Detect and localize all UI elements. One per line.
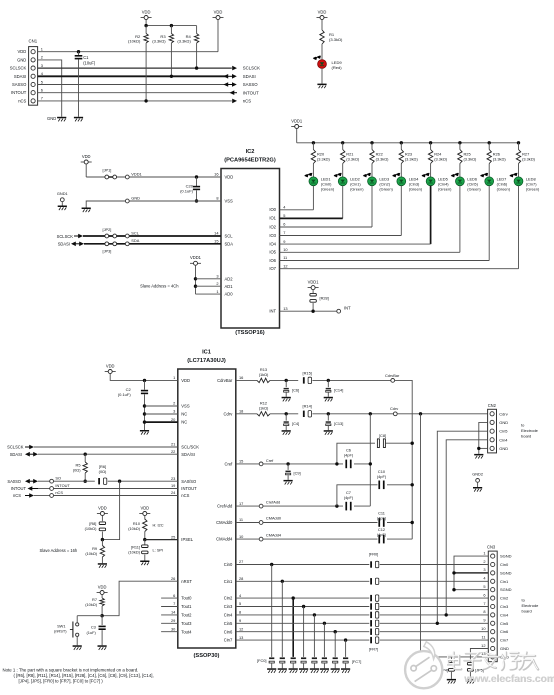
jumper JP3	[103, 242, 117, 254]
ground for C13	[324, 430, 333, 432]
ground for CN2	[474, 454, 483, 456]
svg-text:16: 16	[239, 375, 243, 380]
svg-text:IO1: IO1	[269, 216, 276, 221]
svg-text:SASSO: SASSO	[12, 82, 27, 87]
resistor R26 (3.3k)	[487, 143, 506, 177]
capacitor C1 (10uF)	[75, 50, 96, 117]
svg-text:2: 2	[173, 401, 175, 406]
svg-text:(1kΩ): (1kΩ)	[259, 372, 269, 377]
junction Cin5 vertical to row	[436, 622, 439, 625]
wire R13 to R15	[270, 379, 298, 382]
resistor R23 (3.3k)	[399, 143, 418, 177]
svg-text:(3.3kΩ): (3.3kΩ)	[152, 39, 166, 44]
svg-text:[FC7]: [FC7]	[352, 659, 362, 664]
ground for SW1	[73, 645, 82, 647]
svg-text:6: 6	[283, 222, 285, 227]
svg-text:6: 6	[173, 593, 175, 598]
CN1 pin numbers	[41, 47, 44, 101]
wire CrefAdd from pin17	[236, 505, 259, 507]
capacitor C3 (1uF)	[87, 616, 106, 646]
wire VDD1 LED rail	[297, 141, 521, 144]
svg-text:(3.3kΩ): (3.3kΩ)	[177, 39, 191, 44]
capacitor FC7 not implemented	[343, 657, 348, 668]
power VDD symbol (R7)	[97, 584, 108, 598]
ground for LED9	[317, 84, 326, 86]
node Cref	[259, 458, 274, 466]
arrow SA0SO bidirectional	[7, 479, 38, 484]
jumper JP1	[103, 168, 117, 179]
wire CrefAdd to C7	[263, 504, 343, 507]
svg-text:NC: NC	[181, 412, 187, 417]
wire NC pin20	[143, 420, 178, 423]
node INTOUT label	[50, 483, 71, 491]
svg-text:(4pF): (4pF)	[377, 515, 387, 520]
svg-text:SGND: SGND	[500, 554, 512, 559]
svg-text:GND1: GND1	[57, 191, 68, 196]
svg-text:VDD: VDD	[181, 378, 190, 383]
svg-text:H: I2C: H: I2C	[153, 523, 164, 528]
LED8 (Cin7) green	[509, 173, 540, 192]
wire Cin7 row	[236, 638, 488, 641]
jumper JP5 not implemented	[467, 662, 483, 679]
svg-text:[C13]: [C13]	[334, 421, 343, 426]
svg-text:Cin7: Cin7	[224, 638, 233, 643]
svg-text:Cin0: Cin0	[500, 562, 509, 567]
ground for FC6	[331, 668, 340, 670]
ground for C4	[282, 430, 291, 432]
capacitor FC1 not implemented	[280, 657, 285, 668]
svg-text:(3.3kΩ): (3.3kΩ)	[376, 156, 390, 161]
label to electrode board (CN3)	[522, 598, 540, 614]
svg-text:5: 5	[483, 584, 485, 589]
svg-text:[FC0]: [FC0]	[257, 658, 267, 663]
wire Cin1 tap to FC1	[281, 581, 283, 657]
capacitor FC2 not implemented	[291, 657, 296, 668]
svg-text:29: 29	[171, 618, 175, 623]
LED2 (Cin1) green	[334, 173, 365, 192]
svg-text:(3.3kΩ): (3.3kΩ)	[434, 156, 448, 161]
svg-text:VDD1: VDD1	[291, 118, 303, 123]
svg-text:(1uF): (1uF)	[87, 630, 97, 635]
power VDD symbol (IC2 VDD)	[81, 154, 92, 177]
svg-text:Cin5: Cin5	[499, 429, 508, 434]
svg-text:SDASI: SDASI	[14, 74, 26, 79]
arrow INTOUT out of IC1	[11, 486, 38, 491]
svg-text:CrefAdd: CrefAdd	[217, 504, 233, 509]
IC2 left pin labels	[225, 175, 234, 297]
svg-text:12: 12	[283, 263, 287, 268]
wire AD2	[194, 277, 221, 280]
wire SO to R6	[54, 480, 95, 482]
jumper JP4 not implemented	[439, 657, 454, 679]
wire CMAdd4 from pin10	[236, 538, 259, 540]
wire nRST to pin26	[102, 581, 178, 616]
capacitor FC5 not implemented	[322, 657, 327, 668]
svg-text:AD1: AD1	[225, 284, 234, 289]
resistor R28 not implemented	[308, 279, 329, 313]
svg-text:13: 13	[481, 651, 485, 656]
svg-text:(10kΩ): (10kΩ)	[128, 526, 140, 531]
ground for C3	[98, 645, 107, 647]
svg-text:5: 5	[41, 79, 43, 84]
svg-text:Cin0: Cin0	[224, 562, 233, 567]
svg-text:Cref: Cref	[224, 462, 233, 467]
wire nCS to pin24	[54, 495, 178, 497]
arrow SCLSCK into IC1	[7, 445, 34, 450]
svg-text:(Green): (Green)	[497, 187, 511, 192]
svg-text:VDD: VDD	[140, 505, 149, 510]
GND symbol CN1 pin2	[47, 116, 66, 122]
capacitor FC6 not implemented	[333, 657, 338, 668]
svg-text:IO6: IO6	[269, 258, 276, 263]
wire Cdrv from pin18	[236, 413, 257, 415]
wire CdrvBar from pin16	[236, 379, 257, 381]
svg-text:Cin4: Cin4	[500, 612, 509, 617]
IC2 left pin numbers	[214, 172, 219, 294]
wire SCLSCK pin3	[38, 67, 232, 69]
wire Cin0 tap to FC0	[271, 565, 273, 657]
svg-text:CN1: CN1	[29, 39, 38, 44]
wire Cin4 row	[236, 613, 488, 616]
LED4 (Cin3) green	[392, 173, 423, 192]
svg-text:Cin4: Cin4	[499, 437, 508, 442]
wire Cdrv to CN2	[397, 412, 487, 415]
wire Cdrv shield to CN3 pin13	[421, 414, 489, 657]
node SDA label	[125, 238, 139, 246]
svg-text:IO7: IO7	[269, 266, 276, 271]
arrow nCS into IC1	[13, 493, 34, 498]
ground for FC0	[267, 668, 276, 670]
resistor R7 (10k)	[85, 597, 104, 618]
svg-text:[C8]: [C8]	[379, 433, 386, 438]
LED7 (Cin6) green	[480, 173, 511, 192]
svg-text:VSS: VSS	[225, 199, 234, 204]
svg-text:IO5: IO5	[269, 250, 276, 255]
capacitor FC4 not implemented	[312, 657, 317, 668]
wire Cin0 row	[236, 563, 488, 566]
wire SGND bus CN3	[452, 556, 488, 591]
ground for C9	[284, 480, 293, 482]
resistor R25 (3.3k)	[458, 143, 477, 177]
wire GND pin2	[38, 60, 62, 117]
wire SCL	[83, 235, 221, 237]
svg-text:Tout3: Tout3	[181, 621, 192, 626]
svg-text:6: 6	[41, 88, 43, 93]
node CdrvBar	[385, 373, 400, 382]
wire Cin3 tap to FC3	[303, 607, 305, 657]
svg-text:board: board	[521, 433, 531, 438]
svg-text:Slave Address = 16h: Slave Address = 16h	[40, 548, 78, 553]
node CrefAdd	[259, 499, 280, 508]
svg-text:SCL: SCL	[131, 230, 139, 235]
svg-text:CMAdd0: CMAdd0	[266, 516, 282, 521]
svg-text:VSS: VSS	[181, 404, 190, 409]
note 1 text	[3, 668, 154, 684]
svg-text:INTOUT: INTOUT	[11, 90, 27, 95]
svg-text:SO: SO	[55, 476, 61, 481]
svg-text:21: 21	[171, 442, 175, 447]
svg-text:INT: INT	[344, 306, 351, 311]
svg-text:SCLSCK: SCLSCK	[57, 234, 74, 239]
svg-text:Electrode: Electrode	[521, 428, 539, 433]
wire NC pin3	[143, 412, 178, 415]
power VDD1 symbol (LED rail)	[291, 118, 303, 143]
svg-text:CrefAdd: CrefAdd	[266, 499, 280, 504]
svg-text:Tout4: Tout4	[181, 629, 192, 634]
resistor R24 (3.3k)	[428, 143, 447, 177]
CN3 pin numbers	[481, 550, 486, 656]
svg-text:8: 8	[239, 610, 241, 615]
svg-text:nCS: nCS	[13, 493, 21, 498]
resistor R3 (3.3k)	[152, 26, 173, 78]
svg-text:8: 8	[483, 609, 485, 614]
svg-text:INTOUT: INTOUT	[55, 483, 70, 488]
LED6 (Cin5) green	[451, 173, 482, 192]
svg-text:(Green): (Green)	[321, 187, 335, 192]
svg-text:2: 2	[41, 55, 43, 60]
IC2 right pin numbers	[283, 205, 288, 311]
svg-text:GND: GND	[47, 116, 56, 121]
svg-text:GND: GND	[131, 195, 140, 200]
svg-text:SASSO: SASSO	[243, 82, 258, 87]
svg-text:(10kΩ): (10kΩ)	[128, 550, 140, 555]
svg-text:(4pF): (4pF)	[344, 495, 354, 500]
svg-text:12: 12	[239, 626, 243, 631]
svg-text:IO3: IO3	[269, 233, 276, 238]
ground for IC2 VSS	[82, 208, 91, 210]
capacitor C8 not implemented	[337, 433, 414, 464]
LED3 (Cin2) green	[363, 173, 394, 192]
wire Cdrv vertical to C6 C7	[369, 414, 371, 506]
svg-text:Cin4: Cin4	[224, 613, 233, 618]
ground for JP5	[466, 679, 475, 681]
svg-text:27: 27	[239, 559, 243, 564]
svg-text:26: 26	[171, 576, 175, 581]
svg-text:5: 5	[283, 213, 285, 218]
svg-text:Tout0: Tout0	[181, 596, 192, 601]
svg-text:(0.1uF): (0.1uF)	[118, 392, 132, 397]
ground for FC1	[278, 668, 287, 670]
ground for FC4	[310, 668, 319, 670]
capacitor C6 (4pF)	[344, 447, 372, 468]
svg-text:nCS: nCS	[243, 99, 251, 104]
wire VDD pin1	[38, 51, 218, 53]
resistor R5 (0 ohm)	[73, 453, 88, 483]
node nCS label	[50, 490, 64, 498]
svg-text:SDASI: SDASI	[10, 452, 22, 457]
resistor R13 (1k)	[257, 367, 270, 383]
node SO label	[50, 476, 61, 484]
svg-text:IO2: IO2	[269, 224, 276, 229]
wire AD1	[194, 285, 221, 288]
arrow nCS out	[232, 99, 251, 104]
svg-text:6: 6	[483, 592, 485, 597]
switch SW1 (nRST)	[54, 616, 102, 646]
svg-text:CdrvBar: CdrvBar	[217, 378, 233, 383]
node CMAdd4	[259, 532, 282, 541]
svg-text:( [R6], [R8], [R11], [R14], [R: ( [R6], [R8], [R11], [R14], [R15], [R28]…	[14, 673, 154, 678]
op IC2 PCA9654EDTR2G body	[221, 169, 280, 329]
svg-text:VDD1: VDD1	[190, 255, 202, 260]
svg-text:SDASI: SDASI	[58, 242, 70, 247]
svg-text:SGND: SGND	[500, 587, 512, 592]
wire Cref to C6	[263, 462, 343, 465]
node VDD1 on IC2 VDD wire	[125, 171, 141, 179]
svg-text:[R15]: [R15]	[303, 370, 312, 375]
svg-text:5: 5	[239, 601, 241, 606]
op IC1 LC717A30UJ body	[178, 369, 236, 648]
svg-text:C1: C1	[83, 55, 89, 60]
svg-text:(Green): (Green)	[467, 187, 481, 192]
resistor FR0 not implemented	[370, 561, 379, 567]
capacitor C20 (0.1uF)	[180, 175, 200, 202]
wire Cref from pin15	[236, 463, 259, 465]
connector CN3	[487, 544, 497, 661]
label to electrode board (CN2)	[521, 422, 539, 438]
wire Cin4 from CN2	[446, 440, 487, 615]
wire INT from IC2 pin13	[280, 310, 337, 312]
resistor FR4 not implemented	[370, 612, 379, 618]
svg-text:VDD1: VDD1	[308, 279, 320, 284]
node INT output	[337, 306, 351, 314]
power VDD symbol (R10)	[139, 505, 150, 519]
wire LED8 to IC2 IO7	[280, 186, 519, 269]
ground for C6	[282, 397, 291, 399]
capacitor FC3 not implemented	[301, 657, 306, 668]
wire SA0 to address divider	[102, 481, 119, 539]
svg-text:23: 23	[171, 476, 175, 481]
wire Cin1 row	[236, 580, 488, 583]
svg-text:Cref: Cref	[266, 458, 274, 463]
svg-text:www.elecfans.com: www.elecfans.com	[463, 674, 554, 685]
wire LED1 to IC2 IO0	[280, 186, 314, 210]
svg-text:IO0: IO0	[269, 207, 276, 212]
capacitor C10 (4pF)	[337, 469, 414, 506]
svg-text:INT: INT	[269, 309, 276, 314]
resistor R20 (3.3k)	[311, 143, 330, 177]
wire INTOUT to pin19	[54, 488, 178, 490]
wire LED2 to IC2 IO1	[280, 186, 343, 219]
power VDD symbol (R8)	[97, 505, 108, 521]
svg-text:13: 13	[283, 306, 287, 311]
svg-text:22: 22	[171, 449, 175, 454]
svg-text:(Red): (Red)	[332, 65, 343, 70]
svg-text:Cin5: Cin5	[224, 621, 233, 626]
svg-text:Cin2: Cin2	[500, 596, 509, 601]
power VDD symbol (R2 R3 R4 rail)	[141, 9, 152, 25]
capacitor FC0 not implemented	[269, 657, 274, 668]
svg-text:(3.3kΩ): (3.3kΩ)	[405, 156, 419, 161]
capacitor C9 not implemented	[286, 464, 301, 480]
resistor R2 (10k)	[128, 26, 148, 103]
svg-text:(10kΩ): (10kΩ)	[85, 602, 97, 607]
svg-text:SCLSCK: SCLSCK	[7, 445, 24, 450]
svg-text:25: 25	[171, 534, 175, 539]
svg-text:Cdrv: Cdrv	[499, 411, 507, 416]
svg-text:[C4]: [C4]	[292, 421, 299, 426]
svg-text:VDD: VDD	[18, 49, 27, 54]
svg-text:VDD: VDD	[142, 9, 151, 14]
power VDD symbol (IC1 VDD)	[105, 363, 178, 380]
svg-text:CN3: CN3	[487, 544, 496, 549]
power VDD1 symbol (IC2 address pins)	[190, 255, 202, 294]
svg-text:[C14]: [C14]	[334, 388, 343, 393]
svg-text:GND2: GND2	[472, 471, 483, 476]
svg-text:GND: GND	[500, 646, 509, 651]
power VDD symbol (CN1 pin1)	[213, 9, 224, 51]
svg-text:(TSSOP16): (TSSOP16)	[235, 330, 264, 336]
svg-text:Cin5: Cin5	[500, 621, 509, 626]
capacitor C6 not implemented	[284, 380, 300, 396]
ground for FC7	[341, 668, 350, 670]
svg-text:7: 7	[483, 601, 485, 606]
svg-text:GND: GND	[17, 57, 26, 62]
wire SDASI to pin22	[38, 453, 178, 455]
svg-text:16: 16	[214, 172, 218, 177]
svg-text:VDD: VDD	[98, 505, 107, 510]
svg-text:(PCA9654EDTR2G): (PCA9654EDTR2G)	[224, 157, 276, 163]
arrow SASSO bidirectional	[223, 82, 258, 87]
svg-text:2: 2	[216, 281, 218, 286]
svg-text:9: 9	[283, 239, 285, 244]
svg-text:INTOUT: INTOUT	[11, 486, 27, 491]
svg-text:SCLSCK: SCLSCK	[10, 66, 27, 71]
IC1 right pin numbers	[239, 375, 244, 640]
svg-text:SCLSCK: SCLSCK	[243, 66, 260, 71]
svg-text:[C9]: [C9]	[294, 471, 301, 476]
jumper JP2	[103, 227, 117, 238]
svg-text:7: 7	[283, 230, 285, 235]
IC1 left pin labels	[181, 378, 199, 634]
svg-text:3: 3	[216, 274, 218, 279]
svg-text:(10kΩ): (10kΩ)	[128, 39, 141, 44]
wire R15 to CdrvBar node	[312, 379, 391, 382]
LED1 (Cin0) green	[304, 173, 335, 192]
svg-text:nRST: nRST	[181, 579, 192, 584]
svg-text:[FR0]: [FR0]	[369, 551, 379, 556]
IC1 left pin numbers	[171, 375, 176, 631]
wire SA0SO to node	[38, 480, 50, 482]
wire LED3 to IC2 IO2	[280, 186, 373, 227]
IC1 title	[187, 350, 226, 364]
arrow INTOUT in	[230, 90, 260, 95]
resistor FR6 not implemented	[370, 629, 379, 635]
wire VDD1 to IC2 pin16	[86, 176, 221, 178]
wire LED7 to IC2 IO6	[280, 186, 490, 261]
svg-text:1: 1	[216, 289, 218, 294]
resistor R21 (3.3k)	[341, 143, 360, 177]
svg-text:CdrvBar: CdrvBar	[385, 373, 400, 378]
svg-text:Cin6: Cin6	[224, 629, 233, 634]
IC2 title	[224, 149, 276, 163]
svg-text:VDD: VDD	[106, 363, 115, 368]
svg-text:12: 12	[481, 643, 485, 648]
ground for R11	[140, 561, 149, 563]
svg-text:IC1: IC1	[202, 350, 211, 356]
resistor R11 not implemented (10k)	[128, 540, 163, 561]
svg-text:(10uF): (10uF)	[83, 61, 96, 66]
svg-text:3: 3	[483, 567, 485, 572]
wire CdrvBar vertical bus	[395, 380, 413, 539]
resistor FR7 not implemented	[370, 637, 379, 643]
svg-text:[JP3]: [JP3]	[103, 249, 112, 254]
svg-text:(Green): (Green)	[526, 187, 540, 192]
arrow SCLSCK into IC2	[57, 234, 83, 239]
svg-text:(3.3kΩ): (3.3kΩ)	[493, 156, 507, 161]
wires Tout0-Tout4 stubs	[161, 598, 178, 632]
wire R12 to R14	[270, 412, 298, 415]
wire INTOUT pin6	[38, 92, 231, 94]
